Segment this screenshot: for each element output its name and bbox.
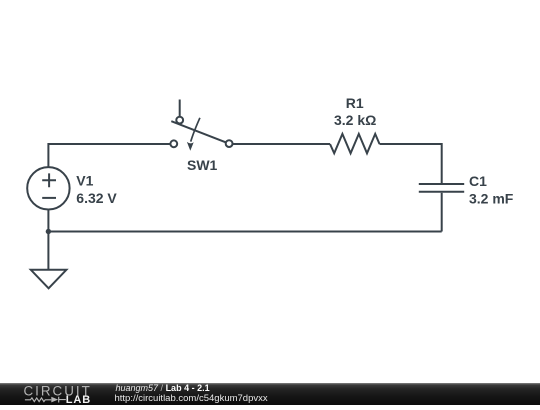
switch terminal circle left <box>170 140 177 147</box>
switch action arrow arc <box>191 118 200 142</box>
wire bottom rail <box>48 231 441 233</box>
svg-text:V1: V1 <box>76 173 93 189</box>
switch SW1 lever <box>171 121 225 142</box>
V1 plus sign <box>42 173 56 187</box>
svg-text:R1: R1 <box>346 95 364 111</box>
svg-text:SW1: SW1 <box>187 157 218 173</box>
V1 minus sign <box>42 197 56 199</box>
svg-text:huangm57 / Lab 4 - 2.1: huangm57 / Lab 4 - 2.1 <box>116 383 210 393</box>
logo resistor zigzag <box>25 398 51 402</box>
svg-text:3.2 mF: 3.2 mF <box>469 191 514 207</box>
switch SW1 top stub <box>179 100 181 117</box>
wire: switch right terminal to resistor <box>233 143 330 145</box>
svg-text:6.32 V: 6.32 V <box>76 190 117 206</box>
capacitor C1 plates <box>419 183 464 185</box>
ground symbol <box>31 270 67 289</box>
switch arrow head <box>187 142 194 151</box>
svg-text:http://circuitlab.com/c54gkum7: http://circuitlab.com/c54gkum7dpvxx <box>115 393 268 404</box>
svg-text:LAB: LAB <box>66 394 91 405</box>
wire: source bottom to ground <box>47 210 49 269</box>
switch terminal circle top <box>176 117 183 124</box>
wire: cap bottom to bottom rail <box>441 193 443 232</box>
voltage source V1 circle <box>27 167 69 209</box>
switch terminal circle right <box>226 140 233 147</box>
resistor R1 zigzag <box>330 134 380 153</box>
wire: resistor to cap column <box>380 144 442 183</box>
svg-text:C1: C1 <box>469 173 487 189</box>
junction dot node <box>46 229 51 234</box>
logo diode <box>51 397 58 403</box>
svg-text:3.2 kΩ: 3.2 kΩ <box>334 112 376 128</box>
wire top: source top to switch left terminal <box>48 144 170 167</box>
footer bar <box>0 383 540 405</box>
